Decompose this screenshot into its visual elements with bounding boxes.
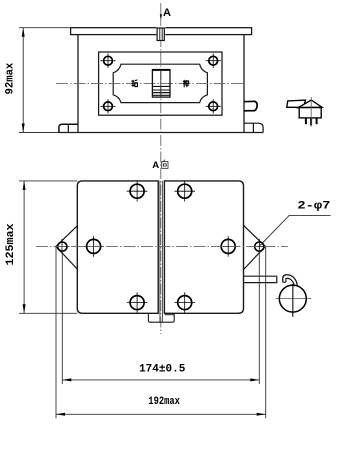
- screw (mid-left): [83, 236, 104, 257]
- left ear hole: [55, 239, 70, 254]
- svg-text:2-φ7: 2-φ7: [297, 201, 330, 213]
- cable spout (right side of body): [244, 101, 257, 111]
- fastener block on cover (erase + redraw): [156, 26, 165, 41]
- panel screw (top-left): [100, 54, 115, 68]
- dim 92max extension line (top): [19, 27, 71, 29]
- char MING (nameplate): [131, 80, 137, 87]
- nameplate recess outline (concave-corner octagon): [113, 64, 207, 102]
- svg-text:A: A: [152, 160, 159, 171]
- svg-text:A: A: [163, 7, 171, 19]
- left foot: [59, 124, 78, 132]
- cable hook: [283, 275, 298, 286]
- dim line 192max: [56, 413, 266, 415]
- svg-text:92max: 92max: [4, 62, 16, 94]
- svg-text:192max: 192max: [148, 396, 180, 408]
- leader line 2-phi7: [260, 215, 331, 245]
- right half housing: [164, 181, 243, 313]
- top cover plate: [71, 28, 252, 35]
- svg-text:174±0.5: 174±0.5: [139, 364, 186, 376]
- horizontal centerline (top view): [56, 82, 244, 84]
- panel plate: [99, 52, 222, 115]
- svg-text:125max: 125max: [5, 223, 17, 265]
- section arrow A (top): [160, 14, 162, 20]
- right foot: [244, 123, 263, 132]
- dim 92max extension line (bottom): [19, 132, 58, 134]
- char PAI (nameplate): [183, 80, 189, 88]
- plug symbol: flat blade: [287, 100, 306, 107]
- plug end circle: [276, 298, 312, 300]
- panel screw (bottom-left): [100, 99, 115, 113]
- screw (top-right): [174, 181, 195, 202]
- panel screw (bottom-right): [206, 99, 221, 113]
- cable rod: [244, 276, 277, 282]
- label A-xiang: char XIANG: [162, 160, 168, 169]
- screw (mid-right): [218, 236, 239, 257]
- switch window block: [152, 70, 170, 97]
- plug roof: [298, 100, 322, 108]
- right mounting ear: [244, 226, 266, 270]
- plug body: [299, 108, 321, 118]
- screw (top-left): [127, 181, 148, 202]
- horizontal centerline (bottom view): [36, 245, 288, 247]
- screw (bottom-right): [174, 292, 195, 313]
- wire: vertical section centerline A-A: [160, 3, 162, 334]
- extension line from right hole (174): [258, 250, 260, 384]
- base line: [58, 132, 263, 134]
- bottom tab: [148, 313, 174, 322]
- extension line from left hole (174): [61, 250, 63, 384]
- extension line from right ear apex (192): [265, 246, 267, 418]
- plug centerline: [310, 97, 312, 127]
- panel screw (top-right): [206, 54, 221, 68]
- dim 125max extension (top): [19, 180, 77, 182]
- dim line 174: [62, 379, 259, 381]
- extension line from left ear apex (192): [55, 246, 57, 418]
- left half housing: [77, 181, 158, 313]
- dim 125max extension (bottom): [19, 312, 77, 314]
- housing body side walls: [77, 35, 79, 133]
- dim line 125max: [23, 181, 25, 313]
- dim line 92max: [22, 28, 24, 133]
- left mounting ear: [56, 226, 78, 270]
- screw (bottom-left): [127, 292, 148, 313]
- plug pins: [305, 118, 307, 124]
- seam lines: [159, 181, 161, 322]
- right ear hole: [252, 239, 267, 254]
